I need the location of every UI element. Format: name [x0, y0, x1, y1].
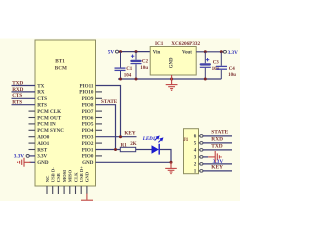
svg-text:3.3V: 3.3V — [228, 50, 238, 56]
wire BT1 PIO8 (STATE) down to LED resistor row — [96, 105, 116, 150]
wire BT1 left GND pin — [30, 161, 36, 163]
svg-text:TX: TX — [37, 83, 44, 89]
svg-text:AIO0: AIO0 — [37, 135, 50, 141]
wire BT1 PIO1 to resistor R1 — [96, 149, 121, 151]
wire J1 pin 2 3.3V — [203, 163, 232, 165]
svg-text:PIO6: PIO6 — [82, 115, 94, 121]
BT1 right pin name labels — [79, 83, 94, 166]
svg-text:3.3V: 3.3V — [37, 154, 47, 160]
junction IC1 GND/rail — [170, 78, 173, 81]
wire BT1 right GND pin to LED ground — [96, 161, 172, 163]
svg-text:PCM CLK: PCM CLK — [37, 109, 61, 115]
wire R1 to LED1 anode — [136, 149, 152, 151]
BT1 left pin stubs (PCM CLK, PCM OUT, PCM IN, PCM SYNC, AIO0, AIO1, RST) — [29, 111, 36, 149]
svg-text:3.3V: 3.3V — [14, 154, 24, 160]
svg-text:NC: NC — [45, 176, 50, 183]
svg-text:PCM SYNC: PCM SYNC — [37, 128, 64, 134]
svg-text:RXD: RXD — [12, 87, 23, 93]
svg-text:104: 104 — [124, 74, 132, 79]
svg-text:CSB: CSB — [56, 173, 61, 182]
svg-text:Vin: Vin — [153, 51, 161, 56]
wire net RTS to BT1 pin RTS — [12, 104, 36, 106]
BT1 bottom pin name labels (rotated) — [45, 166, 90, 182]
svg-text:PIO11: PIO11 — [80, 83, 94, 89]
wire net TXD to BT1 pin TX — [12, 85, 36, 87]
wire 3.3V terminal to BT1 3.3V pin — [29, 155, 35, 157]
junction C4/Vout — [220, 50, 223, 53]
svg-text:CTS: CTS — [37, 96, 47, 102]
junction C2/5V — [135, 50, 138, 53]
svg-text:KEY: KEY — [211, 165, 223, 171]
junction LED cathode / GND wire — [170, 161, 173, 164]
wire LED1 cathode down to GND row — [160, 150, 171, 163]
resistor R1 — [120, 147, 135, 151]
svg-text:MOSI: MOSI — [62, 170, 67, 182]
svg-text:J1: J1 — [183, 138, 189, 143]
svg-text:PIO9: PIO9 — [82, 96, 94, 102]
svg-text:BCM: BCM — [55, 65, 67, 71]
svg-text:PCM OUT: PCM OUT — [37, 115, 62, 121]
svg-text:C3: C3 — [213, 61, 220, 66]
wire IC1 Vout to 3.3V terminal — [196, 51, 223, 53]
svg-text:Vout: Vout — [182, 51, 192, 56]
LED LED1 — [152, 136, 163, 154]
svg-text:GND: GND — [82, 160, 94, 166]
wire net CTS to BT1 pin CTS — [12, 97, 36, 99]
ground symbol (left, sideways) — [18, 158, 31, 167]
power terminal 3.3V (left) — [14, 154, 30, 160]
junction PIO8/PIO1 — [114, 148, 117, 151]
wire BT1 PIO11 to KEY net (down) — [96, 86, 121, 137]
wire J1 pin 6 STATE — [203, 135, 232, 137]
svg-text:MISO: MISO — [68, 170, 73, 183]
svg-text:IC1: IC1 — [155, 41, 164, 47]
svg-text:USB D+: USB D+ — [79, 166, 84, 182]
svg-text:PIO8: PIO8 — [82, 103, 94, 109]
svg-text:PIO3: PIO3 — [82, 135, 94, 141]
svg-text:STATE: STATE — [211, 130, 228, 136]
svg-text:RST: RST — [37, 147, 48, 153]
wire J1 pin 1 KEY — [203, 170, 232, 172]
svg-text:RXD: RXD — [211, 137, 223, 143]
junction C3/Vout — [204, 50, 207, 53]
svg-text:CLK: CLK — [73, 172, 78, 182]
svg-text:BT1: BT1 — [55, 59, 65, 65]
IC U/BT1 body (BCM bluetooth module) — [35, 40, 96, 186]
wire IC1 GND pin lead — [171, 75, 173, 85]
power terminal 3.3V (top right) — [223, 50, 238, 56]
svg-text:R1: R1 — [121, 143, 128, 148]
svg-text:XC6206P332: XC6206P332 — [171, 41, 200, 47]
svg-text:TXD: TXD — [211, 144, 222, 150]
wire BT1 PIO3 KEY stub — [96, 136, 137, 138]
svg-text:PCM IN: PCM IN — [37, 122, 56, 128]
svg-text:2K: 2K — [130, 142, 137, 147]
svg-text:PIO5: PIO5 — [82, 122, 94, 128]
junction C1/rail — [119, 78, 122, 81]
wire 5V to IC1 Vin — [119, 51, 151, 53]
svg-text:10u: 10u — [228, 73, 236, 78]
capacitor C4 — [216, 52, 227, 79]
svg-text:PIO4: PIO4 — [82, 128, 94, 134]
BT1 bottom pin stubs (NC, USB D-, CSB, MOSI, MISO, CLK, USB D+, GND) — [47, 186, 87, 194]
svg-text:LED1: LED1 — [142, 137, 156, 142]
BT1 left pin name labels — [37, 83, 64, 166]
power terminal 5V — [108, 50, 119, 56]
wire BT1 bottom GND pin lead — [86, 194, 88, 200]
wire ground rail under regulator — [118, 78, 221, 80]
wire J1 pin 5 RXD — [203, 142, 232, 144]
BT1 designator text — [55, 59, 67, 72]
capacitor C3 (polarized) — [200, 52, 211, 79]
ground symbol (LED/GND net) — [165, 162, 177, 173]
capacitor C2 (polarized) — [130, 52, 141, 79]
svg-text:10u: 10u — [140, 66, 148, 71]
svg-text:C4: C4 — [229, 67, 236, 72]
ground symbol (regulator) — [166, 85, 178, 91]
J1 pin numbers 6..1 — [194, 135, 197, 175]
junction C3/rail — [204, 78, 207, 81]
svg-text:PIO7: PIO7 — [82, 109, 94, 115]
wire J1 pin 4 TXD — [203, 149, 232, 151]
ground symbol (J1 pin 3, sideways) — [208, 151, 221, 163]
svg-text:RTS: RTS — [37, 103, 47, 109]
ground symbol (BT1 bottom) — [81, 199, 93, 201]
junction C1/5V — [119, 50, 122, 53]
wire net RXD to BT1 pin RX — [12, 91, 36, 93]
J1 pin circles — [199, 135, 203, 173]
svg-text:USB D-: USB D- — [51, 167, 56, 182]
svg-text:PIO2: PIO2 — [82, 141, 94, 147]
svg-text:CTS: CTS — [12, 93, 22, 99]
BT1 right pin stubs (PIO10, PIO9, PIO7, PIO6, PIO5, PIO4, PIO2, PIO0) — [96, 92, 103, 156]
svg-text:AIO1: AIO1 — [37, 141, 50, 147]
svg-text:TXD: TXD — [12, 80, 23, 86]
wire J1 pin 3 to ground — [203, 156, 208, 158]
voltage regulator IC1 body — [150, 47, 196, 76]
junction PIO11/PIO3 KEY — [119, 135, 122, 138]
junction C2/rail — [135, 78, 138, 81]
capacitor C1 — [115, 52, 126, 79]
connector J1 body — [184, 129, 199, 174]
svg-text:RTS: RTS — [12, 100, 22, 106]
svg-text:C2: C2 — [142, 60, 149, 65]
svg-text:GND: GND — [169, 57, 174, 68]
svg-text:5V: 5V — [108, 50, 115, 56]
svg-text:PIO0: PIO0 — [82, 154, 94, 160]
svg-text:PIO1: PIO1 — [82, 147, 94, 153]
svg-text:GND: GND — [37, 160, 49, 166]
svg-text:RX: RX — [37, 90, 45, 96]
svg-text:KEY: KEY — [124, 130, 135, 136]
svg-text:GND: GND — [85, 171, 90, 182]
svg-text:PIO10: PIO10 — [79, 90, 94, 96]
svg-text:C1: C1 — [126, 67, 133, 72]
